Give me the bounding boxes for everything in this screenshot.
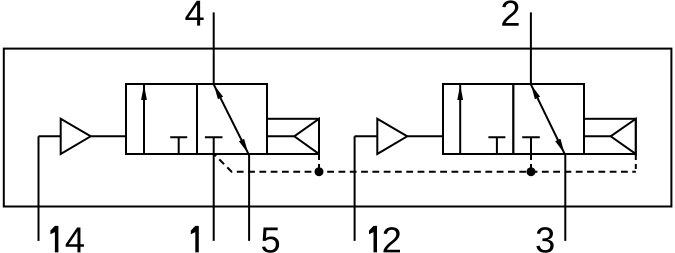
valve V2 body (two-position 3/2 valve) xyxy=(443,84,584,154)
dashed stub to V2 exhaust block corner xyxy=(635,155,637,172)
V2 exhaust symbol at port 3 xyxy=(584,119,636,154)
V1 right box flow path arrow 4-5 xyxy=(214,84,249,153)
V1 left box blocked port T xyxy=(170,137,187,154)
internal pilot supply rail (dashed) from port 1 xyxy=(214,154,636,171)
label port 2 xyxy=(502,0,518,25)
port 5 line xyxy=(248,154,250,241)
port 14 pilot riser line xyxy=(38,136,40,241)
V2 right box flow path arrow 2-3 xyxy=(531,84,565,153)
V1 left box flow arrow 1-4 xyxy=(143,85,145,154)
label port 3 xyxy=(536,227,553,253)
port 12 pilot riser line xyxy=(354,136,356,241)
junction node below V1 exhaust xyxy=(315,167,324,176)
V1 exhaust symbol at port 5 xyxy=(267,119,319,154)
dashed stub to V2 supply port xyxy=(530,155,532,172)
valve V1 body (two-position 3/2 valve) xyxy=(126,84,267,154)
V2 right box blocked port T xyxy=(522,137,540,154)
V2 left box blocked port T xyxy=(488,137,505,154)
valve assembly enclosure xyxy=(4,49,672,207)
V2 pilot actuator triangle (12) xyxy=(355,119,443,154)
junction node below V2 supply xyxy=(527,167,536,176)
label port 4 xyxy=(185,1,203,26)
port 2 line xyxy=(530,12,532,84)
dashed stub to V1 exhaust block corner xyxy=(318,155,320,172)
port 1 line xyxy=(213,154,215,241)
label port 5 xyxy=(262,227,279,252)
port 3 line xyxy=(564,154,566,241)
port 4 line xyxy=(213,12,215,84)
label port 12 xyxy=(369,226,400,253)
V1 pilot actuator triangle (14) xyxy=(39,119,127,154)
label port 14 xyxy=(50,226,84,253)
label port 1 xyxy=(191,226,199,253)
V2 left box flow arrow 1-2 xyxy=(459,85,461,154)
V1 right box blocked port T xyxy=(205,137,223,154)
